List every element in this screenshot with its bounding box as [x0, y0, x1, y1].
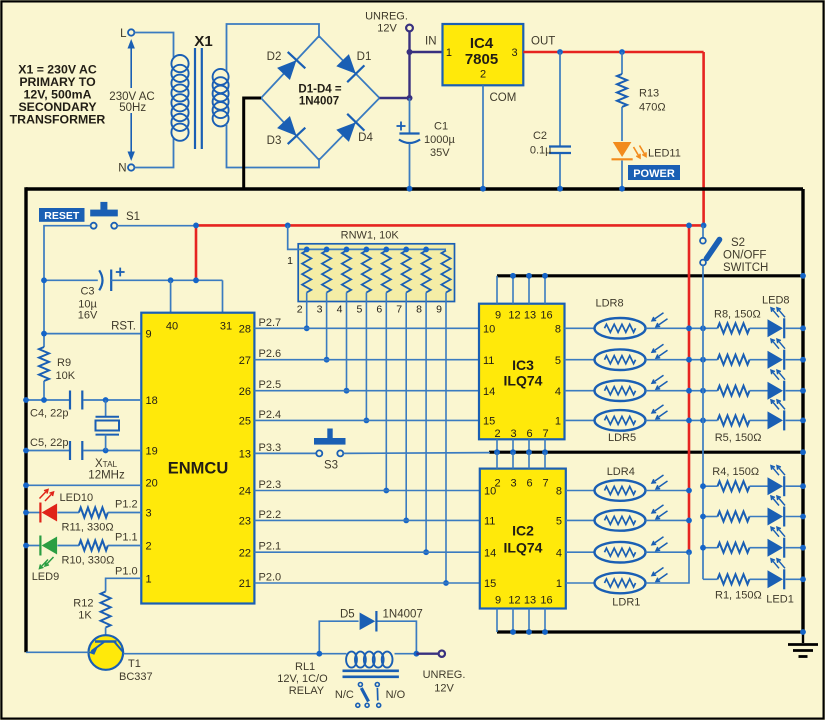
wire: IC4 COM to ground rail [482, 85, 484, 188]
LED10 [26, 512, 40, 514]
wire: S1 to +5V junction [117, 225, 196, 227]
ground rail: right vertical [801, 189, 804, 632]
ground rail: upper-right horizontal (IC3 top pins) [497, 274, 803, 277]
svg-text:13: 13 [524, 595, 536, 607]
svg-text:2: 2 [297, 304, 303, 316]
svg-text:1000µ: 1000µ [424, 134, 455, 146]
svg-text:10: 10 [484, 486, 496, 498]
svg-text:21: 21 [239, 578, 251, 590]
wire: 12V bus to R2 [703, 547, 718, 549]
wire: 12V bus to R4 [703, 485, 718, 487]
svg-text:RST.: RST. [111, 321, 136, 333]
wire: IC3 bottom pins to ground rail [496, 439, 498, 452]
svg-text:S3: S3 [324, 460, 338, 472]
transformer X1 secondary winding [213, 69, 229, 85]
svg-text:RNW1, 10K: RNW1, 10K [341, 229, 400, 241]
svg-text:16: 16 [540, 310, 552, 322]
svg-text:20: 20 [146, 478, 158, 490]
svg-text:D1: D1 [357, 51, 372, 63]
wire: unreg 12V rail (purple) [408, 31, 410, 98]
wire: N to transformer primary [134, 138, 173, 168]
svg-text:ENMCU: ENMCU [168, 460, 229, 478]
LDR6 [595, 380, 646, 401]
LED7 [768, 351, 784, 369]
wire: L to transformer primary [134, 33, 173, 58]
svg-text:R11, 330Ω: R11, 330Ω [62, 522, 114, 534]
svg-text:12MHz: 12MHz [88, 470, 125, 482]
svg-text:12V: 12V [377, 23, 397, 35]
diode D2 [277, 60, 296, 80]
svg-text:10: 10 [483, 324, 495, 336]
svg-text:COM: COM [490, 92, 517, 104]
svg-text:R9: R9 [57, 357, 71, 369]
wire: switched 12V bus (blue vertical) [702, 265, 704, 579]
svg-text:6: 6 [526, 428, 532, 440]
wire: LDR3 to red bus [646, 519, 690, 521]
svg-text:S2: S2 [731, 237, 745, 249]
svg-text:9: 9 [495, 595, 501, 607]
svg-text:C1: C1 [434, 121, 448, 133]
svg-text:LDR8: LDR8 [596, 298, 624, 310]
wire: ground rail to T1 emitter [26, 651, 89, 653]
svg-text:25: 25 [239, 416, 251, 428]
svg-text:LDR4: LDR4 [607, 466, 635, 478]
svg-text:POWER: POWER [633, 168, 675, 180]
LDR5 [595, 410, 646, 431]
svg-text:LDR1: LDR1 [612, 597, 640, 609]
wire: IC2 top pins to ground rail [496, 452, 498, 468]
svg-text:D4: D4 [358, 132, 373, 144]
node UNREG. 12V (bottom terminal) [416, 653, 438, 655]
wire: RNW1 pin 6 to port line [385, 293, 387, 491]
wire: ENMCU pin 1 P1.0 to R12 [106, 578, 142, 591]
svg-text:15: 15 [483, 416, 495, 428]
LDR1 [595, 573, 646, 594]
svg-text:13: 13 [239, 449, 251, 461]
wire: +5V output rail (red) [523, 51, 703, 54]
svg-text:D5: D5 [340, 609, 355, 621]
svg-text:15: 15 [484, 578, 496, 590]
svg-text:7: 7 [396, 304, 402, 316]
svg-text:9: 9 [495, 310, 501, 322]
svg-text:S1: S1 [126, 211, 140, 223]
svg-text:13: 13 [524, 310, 536, 322]
LED4 [768, 477, 784, 495]
transistor T1 BC337 [89, 635, 124, 670]
svg-text:22: 22 [239, 547, 251, 559]
wire: IC2 output row 4 [566, 490, 595, 492]
capacitor C4 [26, 399, 69, 401]
wire: 12V bus to R3 [703, 516, 718, 518]
svg-text:24: 24 [239, 486, 251, 498]
svg-text:P2.3: P2.3 [259, 479, 282, 491]
svg-text:7805: 7805 [465, 51, 498, 68]
svg-text:3: 3 [510, 428, 516, 440]
svg-text:IN: IN [425, 36, 437, 48]
svg-text:1N4007: 1N4007 [299, 96, 339, 108]
wire: IC2 output row 3 [566, 519, 595, 521]
svg-text:RELAY: RELAY [289, 685, 325, 697]
wire: ENMCU pins 40 and 31 verticals [170, 280, 172, 312]
resistor R2 [718, 543, 750, 553]
wire: IC3 output row 6 [565, 390, 595, 392]
LED1 [768, 570, 784, 588]
svg-text:P2.4: P2.4 [259, 409, 282, 421]
svg-text:5: 5 [555, 355, 561, 367]
svg-text:UNREG.: UNREG. [423, 669, 466, 681]
svg-text:28: 28 [239, 324, 251, 336]
svg-text:16: 16 [540, 595, 552, 607]
wire: IC2 output row 2 [566, 551, 595, 553]
svg-text:P3.3: P3.3 [259, 442, 282, 454]
svg-text:P2.7: P2.7 [259, 317, 282, 329]
wire: IC3 output row 7 [565, 359, 595, 361]
LDR7 [595, 349, 646, 370]
svg-text:11: 11 [483, 355, 494, 367]
wire: IC2 output row 1 [566, 582, 595, 584]
svg-text:3: 3 [512, 47, 518, 59]
svg-text:11: 11 [484, 516, 495, 528]
pushbutton S1 [100, 202, 107, 210]
svg-text:50Hz: 50Hz [119, 102, 146, 114]
svg-text:C5, 22p: C5, 22p [30, 437, 69, 449]
resistor RNW1 element 8 [422, 251, 431, 293]
svg-text:ON/OFF: ON/OFF [723, 250, 766, 262]
wire: IC2 bottom pins to ground rail [496, 609, 498, 633]
transformer X1 core [194, 48, 196, 149]
svg-text:N: N [118, 163, 126, 175]
svg-text:27: 27 [239, 355, 251, 367]
svg-text:D2: D2 [267, 51, 282, 63]
capacitor C5 [26, 450, 69, 452]
svg-text:R8, 150Ω: R8, 150Ω [714, 309, 761, 321]
svg-text:LED1: LED1 [766, 594, 794, 606]
wire: LDR1 to red bus via jog [646, 552, 690, 583]
svg-text:P2.5: P2.5 [259, 379, 282, 391]
svg-text:RL1: RL1 [295, 661, 315, 673]
wire: IC3 output row 5 [565, 419, 595, 421]
wire: RNW1 pin 3 to port line [326, 293, 328, 360]
wire: P2.3-P2.0 port lines to IC2 [254, 490, 479, 492]
relay RL1 coil [319, 653, 346, 655]
svg-text:7: 7 [542, 478, 548, 490]
svg-text:R5, 150Ω: R5, 150Ω [715, 432, 762, 444]
svg-text:1N4007: 1N4007 [383, 609, 423, 621]
svg-text:2: 2 [146, 541, 152, 553]
svg-text:6: 6 [526, 478, 532, 490]
svg-text:12: 12 [508, 310, 520, 322]
svg-text:P2.6: P2.6 [259, 348, 282, 360]
svg-text:1K: 1K [78, 610, 92, 622]
svg-text:P2.2: P2.2 [259, 509, 282, 521]
wire: S1 to reset node [44, 226, 91, 347]
svg-text:3: 3 [317, 304, 323, 316]
svg-text:4: 4 [556, 547, 562, 559]
resistor RNW1 element 6 [382, 251, 391, 293]
svg-text:C3: C3 [80, 286, 94, 298]
svg-text:3: 3 [146, 508, 152, 520]
svg-text:R13: R13 [639, 88, 659, 100]
svg-text:BC337: BC337 [119, 671, 153, 683]
svg-text:16V: 16V [78, 310, 98, 322]
svg-text:1: 1 [146, 573, 152, 585]
svg-text:18: 18 [146, 395, 158, 407]
svg-text:4: 4 [337, 304, 343, 316]
resistor R13 [621, 52, 623, 74]
svg-text:IC4: IC4 [470, 35, 494, 52]
svg-text:8: 8 [556, 486, 562, 498]
svg-text:0.1µ: 0.1µ [530, 145, 552, 157]
resistor R8 [718, 323, 750, 333]
svg-text:8: 8 [555, 324, 561, 336]
svg-text:RESET: RESET [44, 210, 80, 222]
svg-text:4: 4 [555, 386, 561, 398]
ground symbol [802, 632, 804, 643]
RESET label [39, 208, 85, 222]
svg-text:T1: T1 [128, 658, 141, 670]
resistor R10 [79, 541, 108, 551]
LED3 [768, 508, 784, 526]
LED2 [768, 539, 784, 557]
junction dots right ground rail [800, 273, 806, 279]
diode D4 [336, 122, 356, 142]
svg-text:470Ω: 470Ω [639, 102, 666, 114]
svg-text:IC2: IC2 [512, 523, 534, 539]
svg-text:P2.1: P2.1 [259, 541, 282, 553]
diode D5 [319, 621, 358, 654]
wire: T1 collector to relay [123, 653, 319, 655]
wire: LDR5 to supply buses [646, 419, 718, 421]
svg-text:UNREG.: UNREG. [365, 11, 408, 23]
svg-text:L: L [120, 28, 127, 40]
resistor R4 [718, 481, 750, 491]
svg-text:12V, 1C/O: 12V, 1C/O [277, 673, 328, 685]
svg-text:LED8: LED8 [762, 295, 790, 307]
svg-text:40: 40 [166, 321, 178, 333]
resistor RNW1 element 7 [402, 251, 411, 293]
wire: 12V bus to R1 [703, 578, 718, 580]
crystal XTAL 12MHz [105, 400, 107, 417]
svg-text:X1: X1 [194, 33, 212, 50]
resistor RNW1 element 9 [441, 251, 450, 293]
resistor R12 [101, 592, 111, 628]
ground rail: bottom horizontal (IC2 bottom pins) [497, 630, 803, 633]
svg-text:5: 5 [556, 516, 562, 528]
wire: RNW1 pin 9 to port line [445, 293, 447, 584]
resistor RNW1 element 5 [362, 251, 371, 293]
resistor R1 [718, 574, 750, 584]
LED9 [26, 545, 40, 547]
LED5 [768, 411, 784, 429]
wire: red +5V distribution [196, 224, 704, 227]
svg-text:R4, 150Ω: R4, 150Ω [712, 466, 759, 478]
resistor R7 [718, 355, 750, 365]
resistor R5 [718, 415, 750, 425]
svg-text:3: 3 [510, 478, 516, 490]
resistor R11 [79, 508, 108, 518]
LED6 [768, 382, 784, 400]
wire: RNW1 pin 1 common to +5V [288, 225, 446, 249]
svg-text:6: 6 [376, 304, 382, 316]
svg-text:D3: D3 [267, 135, 282, 147]
svg-text:R10, 330Ω: R10, 330Ω [62, 555, 115, 567]
capacitor C3 [44, 279, 98, 281]
svg-text:N/C: N/C [335, 689, 354, 701]
resistor R3 [718, 512, 750, 522]
svg-text:9: 9 [436, 304, 442, 316]
svg-text:9: 9 [146, 329, 152, 341]
wire: secondary bottom to bridge AC node [227, 124, 320, 168]
svg-text:LDR5: LDR5 [608, 432, 636, 444]
pushbutton S3 [327, 429, 332, 439]
LDR2 [595, 542, 646, 563]
wire: reset line to ENMCU pin 9 [44, 333, 141, 335]
wire: secondary top to bridge AC node [227, 24, 320, 71]
ground rail: left vertical [24, 187, 27, 652]
230V AC 50Hz dimension arrow [130, 44, 132, 88]
svg-text:23: 23 [239, 516, 251, 528]
svg-text:2: 2 [480, 69, 486, 81]
relay RL1 core [343, 669, 399, 672]
LDR3 [595, 510, 646, 531]
svg-text:12V: 12V [434, 683, 454, 695]
wire: RNW1 pin 8 to port line [425, 293, 427, 553]
capacitor C1 [409, 98, 411, 133]
svg-text:P1.2: P1.2 [115, 499, 138, 511]
svg-text:LED11: LED11 [648, 148, 681, 160]
ground rail: middle horizontal (IC3 bottom / IC2 top pins) [489, 451, 803, 454]
svg-text:SWITCH: SWITCH [723, 262, 768, 274]
wire: LDR7 to supply buses [646, 359, 718, 361]
resistor RNW1 element 4 [342, 251, 351, 293]
resistor RNW1 element 3 [322, 251, 331, 293]
optocoupler IC3 ILQ74 [479, 304, 565, 440]
wire: RNW1 pin 2 to port line [306, 293, 308, 329]
svg-text:D1-D4 =: D1-D4 = [298, 84, 341, 96]
resistor R6 [718, 386, 750, 396]
svg-text:R1, 150Ω: R1, 150Ω [715, 590, 762, 602]
resistor network RNW1 [298, 244, 454, 302]
svg-text:ILQ74: ILQ74 [504, 540, 543, 556]
wire: LDR4 to red bus [646, 490, 690, 492]
wire: P2.7-P2.4 port lines to IC3 [254, 327, 479, 329]
svg-text:TRANSFORMER: TRANSFORMER [10, 113, 106, 127]
svg-text:R12: R12 [73, 598, 93, 610]
wire: LDR8 to supply buses [646, 327, 718, 329]
svg-text:12: 12 [508, 595, 520, 607]
wire: ENMCU pin 20 to ground rail [26, 484, 141, 486]
relay contacts N/C N/O [358, 683, 362, 687]
svg-text:7: 7 [542, 428, 548, 440]
optocoupler IC2 ILQ74 [480, 469, 566, 609]
svg-text:P2.0: P2.0 [259, 572, 282, 584]
LED8 [768, 319, 784, 337]
switch S2 ON/OFF [702, 225, 704, 238]
svg-text:LED10: LED10 [60, 492, 94, 504]
wire: IC3 top pins to ground rail [496, 276, 498, 304]
svg-text:P1.0: P1.0 [115, 566, 138, 578]
svg-text:OUT: OUT [531, 36, 555, 48]
POWER label [628, 165, 680, 180]
svg-text:N/O: N/O [386, 689, 406, 701]
svg-text:1: 1 [446, 47, 452, 59]
svg-text:8: 8 [416, 304, 422, 316]
wire: RNW1 pin 7 to port line [405, 293, 407, 521]
LDR8 [595, 318, 646, 339]
LED11 (power indicator) [613, 142, 632, 157]
svg-text:26: 26 [239, 386, 251, 398]
svg-text:1: 1 [556, 578, 562, 590]
svg-text:XTAL: XTAL [95, 458, 118, 470]
svg-text:31: 31 [220, 321, 232, 333]
svg-text:ILQ74: ILQ74 [504, 373, 543, 389]
svg-text:C2: C2 [533, 130, 547, 142]
svg-text:1: 1 [555, 416, 561, 428]
capacitor C2 [559, 52, 561, 146]
wire: ENMCU pin 13 P3.3 to S3 [254, 452, 316, 454]
regulator IC4 7805 [443, 24, 524, 85]
svg-text:19: 19 [146, 446, 158, 458]
svg-text:10K: 10K [56, 370, 76, 382]
transformer X1 primary winding [171, 55, 188, 72]
wire: IC3 output row 8 [565, 327, 595, 329]
ground rail: top horizontal [26, 187, 803, 190]
wire: LDR6 to supply buses [646, 390, 718, 392]
svg-text:35V: 35V [430, 147, 450, 159]
bridge rectifier diamond wires [261, 36, 380, 160]
wire: RNW1 pin 5 to port line [365, 293, 367, 421]
svg-text:5: 5 [356, 304, 362, 316]
resistor RNW1 element 2 [302, 251, 311, 293]
svg-text:1: 1 [287, 255, 293, 267]
svg-text:2: 2 [494, 428, 500, 440]
diode D3 [277, 116, 296, 136]
svg-text:14: 14 [484, 547, 496, 559]
microcontroller U1 ENMCU [141, 313, 254, 604]
wire: RNW1 pin 4 to port line [346, 293, 348, 391]
LDR4 [595, 480, 646, 501]
resistor R9 [39, 347, 49, 381]
svg-text:P1.1: P1.1 [115, 532, 138, 544]
svg-text:C4, 22p: C4, 22p [30, 408, 69, 420]
svg-text:14: 14 [483, 386, 495, 398]
svg-text:IC3: IC3 [512, 357, 534, 373]
wire: S3 to ground rail [343, 452, 490, 455]
wire: LDR2 to red bus [646, 551, 690, 553]
junction dots on top ground rail [407, 186, 413, 192]
wire: bridge negative to ground rail (black) [244, 98, 261, 188]
svg-text:LED9: LED9 [32, 571, 60, 583]
diode D1 [336, 54, 356, 74]
